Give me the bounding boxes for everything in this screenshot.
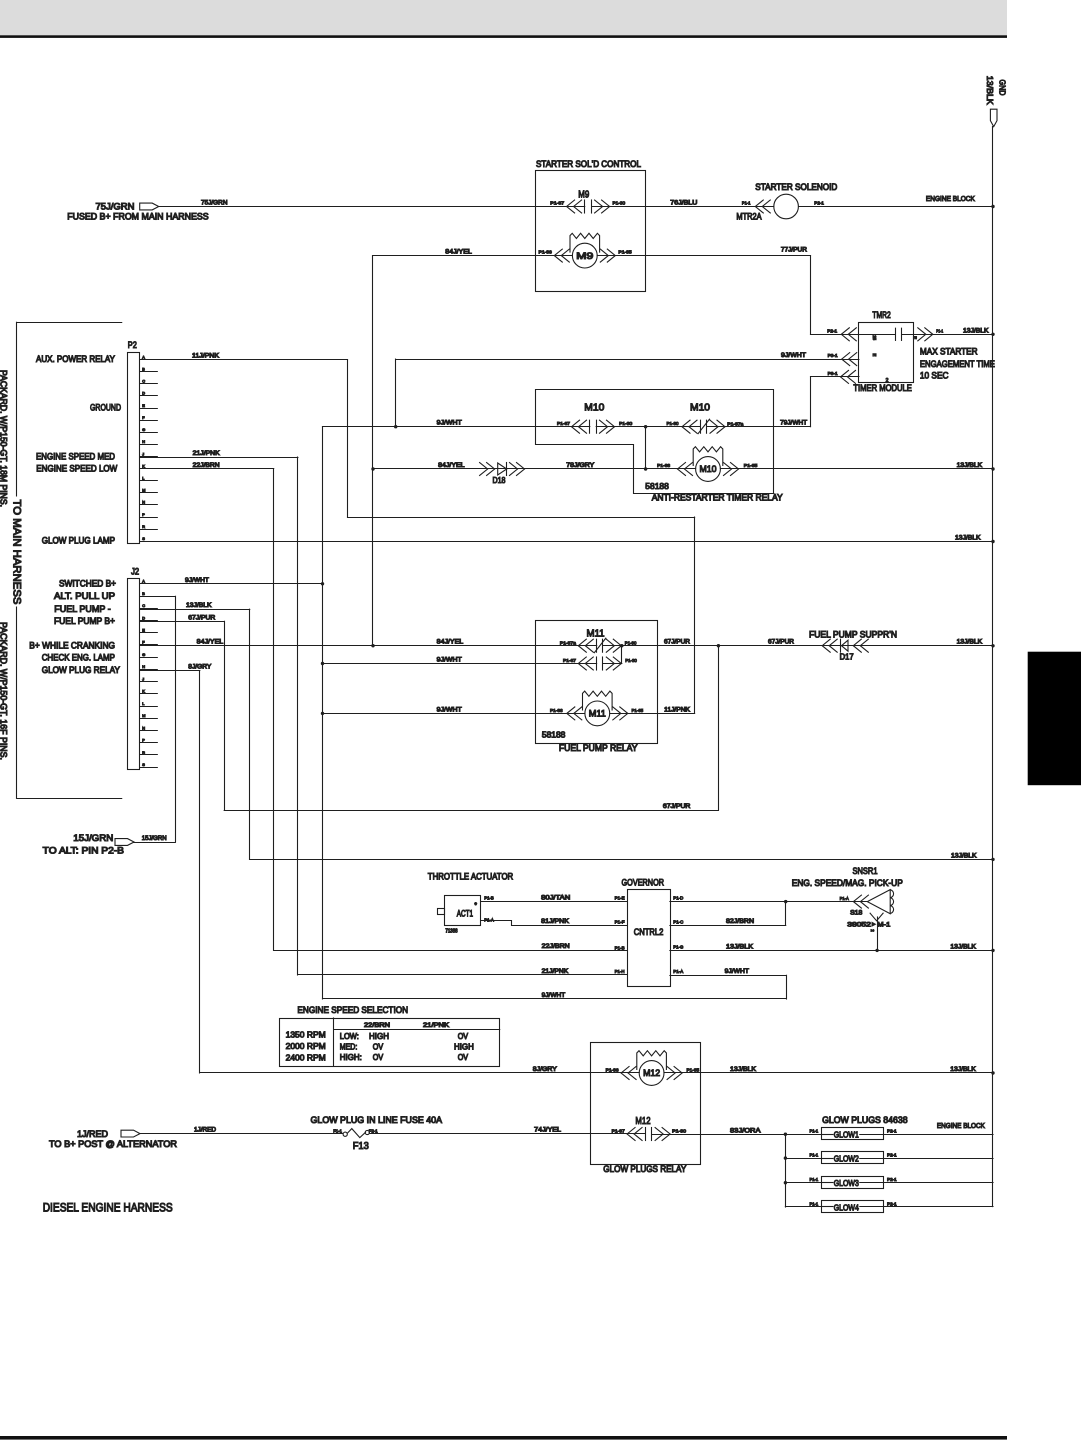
relay box M10 anti-restarter timer relay: [536, 390, 774, 494]
svg-text:R: R: [142, 751, 145, 755]
svg-text:2400 RPM: 2400 RPM: [286, 1053, 326, 1063]
svg-text:P2-1: P2-1: [814, 201, 824, 207]
pin J2-D: [140, 620, 158, 622]
svg-text:CNTRL2: CNTRL2: [634, 927, 664, 937]
svg-text:ENGINE SPEED LOW: ENGINE SPEED LOW: [36, 463, 117, 473]
svg-text:HIGH:: HIGH:: [340, 1053, 362, 1062]
svg-text:11J/PNK: 11J/PNK: [664, 706, 691, 713]
svg-text:C: C: [142, 380, 145, 384]
diode D18: [487, 463, 495, 476]
svg-text:TO ALT: PIN P2-B: TO ALT: PIN P2-B: [43, 845, 124, 855]
pin J2-C: [140, 608, 158, 610]
bracket to main harness: [17, 322, 122, 324]
pin J2-L: [140, 706, 158, 708]
svg-text:M12: M12: [635, 1116, 651, 1127]
svg-text:P2-1: P2-1: [827, 328, 837, 334]
svg-text:M-1: M-1: [877, 922, 891, 929]
svg-text:67J/PUR: 67J/PUR: [188, 614, 215, 621]
svg-text:P1-A: P1-A: [840, 896, 850, 902]
svg-text:84J/YEL: 84J/YEL: [445, 248, 472, 255]
wire 9J/WHT from J2-A: [140, 583, 323, 585]
svg-text:HIGH: HIGH: [369, 1032, 389, 1041]
svg-text:38052: 38052: [847, 922, 871, 929]
svg-text:M12: M12: [643, 1068, 660, 1078]
svg-text:P1-85: P1-85: [687, 1067, 700, 1073]
svg-text:P1-86: P1-86: [606, 1067, 619, 1073]
svg-text:25: 25: [872, 335, 877, 340]
svg-text:P1-86: P1-86: [539, 250, 553, 256]
wire 84J/YEL / 78J/GRY coil row: [373, 468, 696, 470]
svg-text:J: J: [142, 452, 144, 456]
connector GND 13/BLK: [990, 109, 997, 126]
svg-text:GLOW1: GLOW1: [834, 1130, 859, 1140]
svg-text:11J/PNK: 11J/PNK: [192, 353, 220, 360]
svg-text:AUX. POWER RELAY: AUX. POWER RELAY: [36, 354, 115, 364]
wire 77J/PUR: [597, 255, 810, 257]
svg-text:75J/GRN: 75J/GRN: [201, 199, 228, 206]
svg-text:P1-85: P1-85: [618, 250, 632, 256]
top rule: [0, 35, 1007, 38]
svg-text:80J/TAN: 80J/TAN: [541, 895, 571, 902]
wire 9J/WHT M11 contact 2: [323, 663, 597, 665]
relay coil M10: [696, 457, 721, 482]
svg-text:GLOW3: GLOW3: [834, 1178, 859, 1188]
svg-text:F13: F13: [353, 1141, 370, 1152]
pin J2-M: [140, 718, 158, 720]
svg-text:TO MAIN HARNESS: TO MAIN HARNESS: [11, 500, 23, 605]
svg-text:SWITCHED B+: SWITCHED B+: [59, 578, 116, 588]
svg-text:D17: D17: [840, 653, 855, 662]
svg-text:9J/WHT: 9J/WHT: [781, 352, 806, 359]
wire 21J/PNK into governor: [298, 974, 627, 976]
svg-text:9J/WHT: 9J/WHT: [725, 968, 749, 975]
svg-text:L: L: [142, 477, 144, 481]
svg-text:67J/PUR: 67J/PUR: [768, 639, 794, 646]
svg-text:GND: GND: [998, 80, 1008, 96]
svg-text:M11: M11: [589, 709, 606, 719]
svg-text:ENG. SPEED/MAG. PICK-UP: ENG. SPEED/MAG. PICK-UP: [792, 878, 903, 888]
svg-text:13J/BLK: 13J/BLK: [726, 943, 754, 950]
svg-text:F1-1: F1-1: [333, 1128, 342, 1134]
svg-text:M11: M11: [587, 629, 605, 640]
pin J2-K: [140, 693, 158, 695]
svg-text:13J/BLK: 13J/BLK: [957, 462, 983, 469]
pin P2-H: [140, 444, 158, 446]
wire 9J/WHT M11 coil: [323, 713, 585, 715]
relay box M9 starter sol'd control: [536, 171, 646, 292]
wire 84J/YEL from J2-F: [140, 645, 597, 647]
wire 84J/YEL to M9 coil: [373, 255, 572, 257]
svg-text:13J/BLK: 13J/BLK: [963, 327, 989, 334]
pin P2-F: [140, 420, 158, 422]
svg-text:G: G: [142, 428, 145, 432]
svg-text:N: N: [142, 501, 145, 505]
svg-text:J: J: [142, 677, 144, 681]
svg-text:GLOW PLUGS RELAY: GLOW PLUGS RELAY: [603, 1164, 686, 1174]
wire GLOW2 to engine block: [883, 1158, 993, 1160]
svg-text:13J/BLK: 13J/BLK: [730, 1066, 757, 1073]
svg-text:OV: OV: [373, 1042, 384, 1051]
svg-text:GLOW PLUG IN LINE FUSE 40A: GLOW PLUG IN LINE FUSE 40A: [311, 1115, 443, 1125]
svg-text:MTR2A: MTR2A: [736, 212, 761, 222]
connector J2: [128, 579, 140, 770]
svg-text:84J/YEL: 84J/YEL: [438, 462, 465, 469]
svg-text:THROTTLE ACTUATOR: THROTTLE ACTUATOR: [428, 872, 514, 882]
wire 75J/GRN / 76J/BLU starter row: [159, 206, 585, 208]
wire TMR2 row1 to capacitor: [811, 334, 896, 336]
svg-text:STARTER SOLENOID: STARTER SOLENOID: [755, 182, 837, 192]
svg-text:D: D: [142, 392, 145, 396]
relay coil M9: [572, 243, 597, 268]
svg-text:M9: M9: [576, 251, 593, 261]
glow plug GLOW2: [822, 1152, 884, 1164]
pin J2-S: [140, 767, 158, 769]
pin M-1 of SNSR1: [870, 913, 883, 921]
pin P2-A: [140, 359, 158, 361]
pin P2-D: [140, 395, 158, 397]
svg-text:P1-87: P1-87: [557, 421, 570, 427]
svg-text:13J/BLK: 13J/BLK: [950, 1066, 976, 1073]
svg-text:P1-1: P1-1: [742, 201, 751, 207]
svg-text:STARTER SOL'D CONTROL: STARTER SOL'D CONTROL: [536, 159, 641, 169]
svg-text:13J/BLK: 13J/BLK: [950, 943, 976, 950]
svg-text:C: C: [142, 604, 145, 608]
wire 22J/BRN into governor: [274, 950, 628, 952]
pin P2-J: [140, 456, 158, 458]
pin J2-B: [140, 596, 158, 598]
svg-text:P8-1: P8-1: [828, 371, 838, 377]
svg-text:21J/PNK: 21J/PNK: [193, 450, 221, 457]
relay contact M11 normally-open: [596, 657, 598, 670]
wire GLOW3 to engine block: [883, 1182, 993, 1184]
svg-text:H: H: [142, 665, 145, 669]
svg-text:E: E: [912, 336, 917, 339]
svg-text:FUEL PUMP B+: FUEL PUMP B+: [54, 616, 115, 626]
svg-text:P1-87a: P1-87a: [560, 640, 576, 646]
pin P2-K: [140, 468, 158, 470]
wire governor P1-D to SNSR1: [670, 901, 867, 903]
wire 13J/BLK glow plug lamp row from P2-S: [140, 541, 993, 543]
wire link between M10 contacts and coil: [645, 427, 647, 469]
svg-text:J2: J2: [131, 567, 139, 577]
wire 13J/BLK from TMR2 P1-1: [902, 334, 993, 336]
wire M11 row1 through contact: [603, 645, 993, 647]
connector P2: [128, 353, 140, 544]
svg-text:58188: 58188: [645, 482, 669, 491]
wire 79J/WHT to TMR2 P8-1: [811, 376, 859, 378]
svg-text:M10: M10: [700, 464, 717, 474]
svg-text:PACKARD, W/P150-GT, 16F PINS.: PACKARD, W/P150-GT, 16F PINS.: [0, 622, 9, 760]
glow plug GLOW3: [822, 1177, 884, 1189]
wire 13J/BLK governor P1-G: [670, 950, 993, 952]
connector 1J/RED to B+ post of alternator: [121, 1130, 140, 1137]
svg-text:GLOW PLUG RELAY: GLOW PLUG RELAY: [42, 665, 120, 675]
svg-text:13J/BLK: 13J/BLK: [186, 602, 212, 609]
svg-text:FUSED B+ FROM MAIN HARNESS: FUSED B+ FROM MAIN HARNESS: [67, 212, 209, 222]
svg-text:CHECK ENG. LAMP: CHECK ENG. LAMP: [42, 653, 115, 663]
svg-text:E: E: [872, 354, 877, 357]
svg-text:P1-1: P1-1: [810, 1153, 819, 1158]
pin J2-H: [140, 669, 158, 671]
svg-text:FUEL PUMP RELAY: FUEL PUMP RELAY: [559, 743, 638, 753]
pin P2-E: [140, 408, 158, 410]
svg-text:67J/PUR: 67J/PUR: [663, 803, 691, 810]
svg-text:13/BLK: 13/BLK: [985, 76, 995, 105]
svg-text:LOW:: LOW:: [340, 1032, 359, 1041]
pin P2-P: [140, 517, 158, 519]
svg-text:P2-1: P2-1: [887, 1177, 897, 1182]
svg-text:ENGINE SPEED MED: ENGINE SPEED MED: [36, 451, 115, 461]
pin P2-C: [140, 383, 158, 385]
svg-text:M9: M9: [578, 190, 589, 201]
svg-text:GLOW4: GLOW4: [834, 1202, 859, 1212]
svg-text:9J/WHT: 9J/WHT: [542, 992, 566, 999]
timer module TMR2: [859, 323, 914, 383]
capacitor in TMR2: [895, 328, 897, 340]
svg-text:TIMER MODULE: TIMER MODULE: [853, 383, 912, 393]
section tab: [1028, 652, 1081, 786]
svg-text:21/PNK: 21/PNK: [423, 1022, 450, 1029]
svg-text:L: L: [142, 702, 144, 706]
svg-text:MAX STARTER: MAX STARTER: [920, 346, 978, 356]
svg-text:P1-B: P1-B: [484, 896, 494, 902]
wire 15J/GRN: [134, 842, 175, 844]
pin J2-A: [140, 583, 158, 585]
svg-text:ACT1: ACT1: [457, 909, 473, 919]
svg-text:P1-C: P1-C: [673, 919, 683, 925]
svg-text:P1-85: P1-85: [744, 463, 758, 469]
node ground bus junctions: [991, 205, 994, 208]
svg-text:8J/GRY: 8J/GRY: [188, 664, 212, 671]
svg-text:67J/PUR: 67J/PUR: [664, 639, 690, 646]
svg-text:1350 RPM: 1350 RPM: [286, 1030, 326, 1040]
svg-text:83J/ORA: 83J/ORA: [730, 1127, 761, 1134]
svg-text:79J/WHT: 79J/WHT: [780, 420, 807, 427]
svg-text:GLOW PLUG LAMP: GLOW PLUG LAMP: [42, 536, 115, 546]
svg-text:P1-30: P1-30: [672, 1128, 686, 1134]
svg-text:B+ WHILE CRANKING: B+ WHILE CRANKING: [29, 640, 115, 650]
svg-text:P2-1: P2-1: [887, 1153, 897, 1158]
svg-text:PACKARD, W/P150-GT, 18M PINS.: PACKARD, W/P150-GT, 18M PINS.: [0, 370, 9, 507]
svg-text:22/BRN: 22/BRN: [364, 1022, 391, 1029]
relay coil M11: [585, 701, 610, 726]
svg-text:M: M: [142, 489, 145, 493]
svg-text:84J/YEL: 84J/YEL: [197, 639, 224, 646]
pin J2-R: [140, 754, 158, 756]
svg-text:GOVERNOR: GOVERNOR: [622, 878, 665, 888]
svg-text:P1-1: P1-1: [810, 1129, 819, 1134]
pin P2-L: [140, 480, 158, 482]
svg-text:2000 RPM: 2000 RPM: [286, 1041, 326, 1051]
pin P2-M: [140, 492, 158, 494]
svg-text:FUEL PUMP -: FUEL PUMP -: [54, 604, 110, 614]
svg-text:FUEL PUMP SUPPR'N: FUEL PUMP SUPPR'N: [809, 630, 897, 640]
svg-text:1J/RED: 1J/RED: [77, 1129, 108, 1139]
svg-text:G: G: [142, 653, 145, 657]
wire GLOW4 to engine block: [883, 1206, 993, 1208]
svg-text:ANTI-RESTARTER TIMER RELAY: ANTI-RESTARTER TIMER RELAY: [652, 493, 783, 503]
svg-text:N: N: [142, 726, 145, 730]
svg-text:P1-D: P1-D: [673, 896, 683, 902]
svg-text:P1-30: P1-30: [667, 421, 679, 427]
svg-text:78J/GRY: 78J/GRY: [566, 462, 595, 469]
svg-text:9J/WHT: 9J/WHT: [437, 657, 462, 664]
pin P2-R: [140, 529, 158, 531]
svg-text:8J/GRY: 8J/GRY: [533, 1066, 558, 1073]
svg-text:1J/RED: 1J/RED: [194, 1127, 216, 1134]
wire 13J/BLK ground bus: [992, 127, 994, 1207]
pin J2-P: [140, 742, 158, 744]
svg-text:D: D: [142, 616, 145, 620]
wire 11J/PNK from P2-A: [140, 359, 348, 361]
svg-text:ENGINE BLOCK: ENGINE BLOCK: [926, 194, 975, 203]
svg-text:P1-30: P1-30: [625, 658, 637, 664]
relay box M12 glow plugs relay: [591, 1043, 701, 1165]
pin P2-G: [140, 432, 158, 434]
svg-text:13J/BLK: 13J/BLK: [955, 534, 981, 541]
svg-text:82J/BRN: 82J/BRN: [726, 918, 754, 925]
glow plug GLOW1: [822, 1128, 884, 1140]
svg-text:P1-1: P1-1: [810, 1201, 819, 1206]
wire 80J/TAN: [481, 901, 627, 903]
svg-text:OV: OV: [458, 1053, 469, 1062]
svg-text:2: 2: [886, 378, 889, 384]
svg-text:GLOW2: GLOW2: [834, 1154, 859, 1164]
svg-text:13J/BLK: 13J/BLK: [951, 852, 977, 859]
pin J2-E: [140, 632, 158, 634]
svg-text:M10: M10: [690, 403, 710, 414]
svg-text:9J/WHT: 9J/WHT: [437, 420, 462, 427]
relay box M11 fuel pump relay: [536, 621, 658, 744]
wire 13J/BLK from J2-C: [140, 609, 250, 611]
svg-text:P1-86: P1-86: [657, 463, 670, 469]
svg-text:21J/PNK: 21J/PNK: [542, 968, 569, 975]
svg-text:ENGAGEMENT TIME: ENGAGEMENT TIME: [920, 359, 995, 369]
wire 8J/GRY M12 coil row: [200, 1072, 639, 1074]
svg-text:TO B+ POST @ ALTERNATOR: TO B+ POST @ ALTERNATOR: [49, 1139, 178, 1149]
wire 82J/BRN governor P1-C: [670, 925, 786, 927]
wire 15J/GRN from J2-B: [140, 596, 176, 598]
svg-text:P1-A: P1-A: [673, 969, 684, 975]
svg-text:P1-E: P1-E: [615, 896, 625, 902]
svg-text:R: R: [142, 525, 145, 529]
svg-text:TMR2: TMR2: [872, 310, 890, 320]
wire 81J/PNK: [481, 921, 627, 926]
svg-text:DIESEL ENGINE HARNESS: DIESEL ENGINE HARNESS: [43, 1201, 173, 1215]
svg-text:81J/PNK: 81J/PNK: [541, 918, 570, 925]
svg-text:MED:: MED:: [340, 1042, 358, 1051]
svg-text:P2-1: P2-1: [887, 1201, 897, 1206]
bottom rule: [0, 1436, 1007, 1440]
pin P2-N: [140, 504, 158, 506]
svg-text:84J/YEL: 84J/YEL: [437, 639, 464, 646]
wire 22J/BRN from P2-K: [140, 468, 274, 470]
connector 75J/GRN fused B+ from main harness: [140, 203, 159, 210]
svg-text:75J/GRN: 75J/GRN: [96, 202, 135, 212]
glow plug GLOW4: [822, 1201, 884, 1213]
svg-text:P1-1: P1-1: [936, 328, 943, 334]
svg-text:H: H: [142, 440, 145, 444]
svg-text:10 SEC: 10 SEC: [920, 371, 949, 381]
svg-text:ALT. PULL UP: ALT. PULL UP: [54, 591, 115, 601]
wire 8J/GRY from J2-H: [140, 670, 200, 672]
wire 9J/WHT to TMR2 P3-1: [396, 359, 859, 361]
svg-text:9J/WHT: 9J/WHT: [185, 577, 209, 584]
svg-text:D18: D18: [493, 476, 506, 485]
svg-text:15J/GRN: 15J/GRN: [142, 835, 167, 842]
wire 11J/PNK M11 coil: [610, 713, 695, 715]
wire 21J/PNK from P2-J: [140, 457, 298, 459]
pin J2-G: [140, 657, 158, 659]
pin P2-S: [140, 541, 158, 543]
wire 67J/PUR from J2-D: [140, 621, 225, 623]
svg-text:M: M: [142, 714, 145, 718]
pin P2-B: [140, 371, 158, 373]
svg-text:OV: OV: [458, 1032, 469, 1041]
svg-text:P1-87: P1-87: [550, 201, 564, 207]
svg-text:ENGINE BLOCK: ENGINE BLOCK: [937, 1121, 985, 1130]
svg-text:ENGINE SPEED SELECTION: ENGINE SPEED SELECTION: [297, 1005, 408, 1015]
wire 83J/ORA: [652, 1134, 822, 1136]
svg-text:58188: 58188: [542, 730, 566, 739]
pin J2-F: [140, 644, 158, 646]
svg-text:GLOW PLUGS 84638: GLOW PLUGS 84638: [822, 1115, 908, 1125]
pin J2-N: [140, 730, 158, 732]
wire 74J/YEL: [369, 1133, 645, 1135]
svg-text:77J/PUR: 77J/PUR: [781, 246, 807, 253]
svg-text:P1-87a: P1-87a: [727, 422, 743, 428]
wire 9J/WHT M10 contact row: [323, 426, 590, 428]
svg-text:71388: 71388: [445, 928, 457, 934]
svg-text:9J/WHT: 9J/WHT: [437, 706, 462, 713]
svg-text:P2-1: P2-1: [887, 1129, 897, 1134]
svg-text:P1-G: P1-G: [673, 945, 683, 951]
wire SNSR1 M-1 to 13J/BLK: [877, 917, 879, 950]
relay coil M12: [639, 1061, 664, 1086]
svg-text:15J/GRN: 15J/GRN: [73, 833, 113, 843]
svg-text:P2: P2: [128, 340, 137, 350]
svg-text:P1-1: P1-1: [810, 1177, 819, 1182]
svg-text:S18: S18: [850, 910, 863, 917]
svg-text:P1-30: P1-30: [619, 421, 632, 427]
svg-text:P1-30: P1-30: [613, 201, 626, 207]
svg-text:76J/BLU: 76J/BLU: [670, 199, 698, 206]
svg-text:P1-F: P1-F: [615, 919, 625, 925]
wire 1J/RED: [140, 1133, 343, 1135]
svg-text:M10: M10: [584, 403, 604, 414]
governor CNTRL2: [628, 890, 671, 987]
svg-text:74J/YEL: 74J/YEL: [534, 1127, 561, 1134]
wire GLOW1 to engine block: [883, 1134, 993, 1136]
svg-text:P3-1: P3-1: [828, 353, 838, 359]
wire 9J/WHT governor P1-A return: [670, 975, 786, 977]
svg-text:OV: OV: [373, 1053, 384, 1062]
svg-text:HIGH: HIGH: [454, 1042, 474, 1051]
top title bar: [0, 0, 1007, 36]
svg-text:13J/BLK: 13J/BLK: [957, 639, 983, 646]
pin J2-J: [140, 681, 158, 683]
svg-text:GROUND: GROUND: [90, 403, 121, 413]
svg-text:22J/BRN: 22J/BRN: [542, 943, 570, 950]
connector 15J/GRN to alternator: [115, 839, 134, 846]
svg-text:22J/BRN: 22J/BRN: [193, 462, 220, 469]
svg-text:SNSR1: SNSR1: [853, 866, 878, 876]
